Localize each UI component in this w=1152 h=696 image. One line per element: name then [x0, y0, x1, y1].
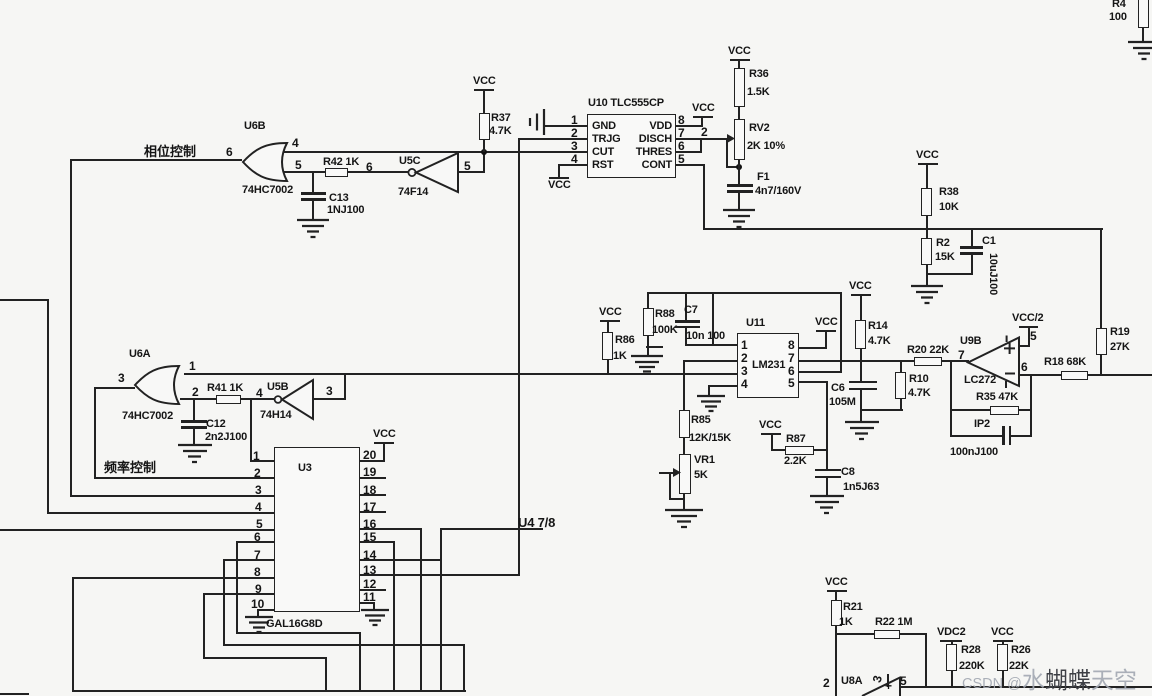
potentiometer RV2 body: [734, 119, 745, 160]
wire: vertical x95 U6A out to U3 pin2: [94, 387, 96, 478]
ground under VR1: [663, 509, 705, 531]
label: R41 1K: [207, 382, 243, 394]
wire: U11 pin2 to R85: [684, 360, 737, 362]
label: 10uJ100 rotated: [987, 249, 999, 299]
wire: pin9 wrap down and right: [203, 593, 205, 659]
label: 4.7K: [489, 125, 511, 137]
wire: U4 7/8 stub: [440, 528, 543, 530]
wire: pin8 wrap down along left: [72, 577, 74, 692]
wire: U6B pin4 input to node A and on to U10 CUT: [283, 151, 587, 153]
label: U10 right pin names: [649, 120, 672, 132]
wire: left vertical from phase net down to U3 pin3: [70, 159, 72, 497]
wire: net down to U3 pin1: [250, 398, 252, 462]
wire: R2/C1 to ground: [926, 273, 928, 287]
capacitor IP2 plates (vertical): [1002, 426, 1005, 445]
wire: U11 pin4 to ground: [709, 385, 737, 387]
IC U11 LM231 body: [737, 333, 799, 398]
wire: U10 pin1 GND lead: [544, 125, 587, 127]
op-amp U9B triangle: [965, 334, 1025, 394]
wire: U11 pin6 vertical from loop: [840, 292, 842, 373]
label: F1: [757, 171, 769, 183]
capacitor C6 top lead: [860, 360, 862, 382]
inverter U5B (74H14, pointing left): [271, 377, 321, 423]
wire: U3 pin9: [203, 593, 274, 595]
potentiometer VR1 body: [679, 454, 691, 494]
junction dot RV2 bottom: [736, 164, 742, 170]
label: phase control (Chinese): [144, 141, 196, 160]
wire: R14 bottom lead: [860, 348, 862, 362]
wire: R42 to U5C bubble: [348, 171, 409, 173]
wire: U11 pin8 to VCC: [799, 347, 827, 349]
capacitor C1 top lead: [971, 228, 973, 247]
label: pin 5 of U6B: [295, 158, 302, 172]
label: U10 pin numbers 1-4: [571, 113, 578, 127]
wire: long bottom bus: [72, 690, 466, 692]
wire: R22 left lead: [835, 633, 875, 635]
capacitor C6 plates: [849, 381, 877, 384]
resistor R2: [926, 228, 928, 238]
wire: vertical joining node A: [483, 151, 485, 173]
label: U11: [746, 317, 765, 329]
label: 74F14: [398, 186, 428, 198]
capacitor C12 plates: [181, 420, 207, 423]
label: IP2: [974, 418, 990, 430]
capacitor C1 bottom lead: [971, 254, 973, 275]
wire: long vertical TRJG to U3 pin13: [518, 138, 520, 576]
capacitor C8 plates: [815, 469, 841, 472]
IC U3 GAL16G8D body: [274, 447, 360, 612]
wire: U3 pin12 stub: [360, 589, 386, 591]
op-amp U8A (cropped at bottom edge): [823, 676, 830, 690]
resistor R22: [874, 630, 900, 639]
resistor R41: [216, 395, 241, 404]
power VDC2 above R28: [937, 626, 966, 638]
label: C12: [206, 418, 226, 430]
wire: U3 pin15 right and down: [360, 541, 395, 543]
label: 100nJ100: [950, 446, 998, 458]
wire: feedback vertical right: [1030, 374, 1032, 437]
capacitor F1 top lead: [738, 166, 740, 185]
wire: R88 bottom lead: [647, 335, 649, 357]
wire: phase-control net horizontal: [71, 159, 242, 161]
wire: R36 to RV2: [738, 106, 740, 120]
wire: R37 bottom lead to node A: [483, 139, 485, 152]
label: R37: [491, 112, 511, 124]
potentiometer RV2 wiper arrow: [726, 133, 738, 145]
resistor R86: [602, 332, 613, 360]
label: U10 left pin names: [592, 120, 616, 132]
wire: pin7 wrap down and right: [223, 559, 225, 646]
capacitor C8 bottom lead: [826, 477, 828, 496]
power VCC above R38: [916, 149, 939, 161]
resistor R14: [855, 320, 866, 349]
label: pin 2 of U6A: [192, 385, 199, 399]
resistor R20: [914, 357, 942, 366]
capacitor F1 bottom lead: [738, 192, 740, 211]
wire: U3 pin7: [223, 559, 274, 561]
inverter U5C (74F14, pointing left): [406, 150, 462, 196]
wire: U6B pin5 input to R42: [283, 171, 325, 173]
label: U3 left pin numbers: [253, 449, 260, 463]
wire: R4 to ground: [1142, 27, 1144, 43]
label: 1n5J63: [843, 481, 879, 493]
label: 1NJ100: [327, 204, 364, 216]
wire: U3 pin19 stub: [360, 477, 386, 479]
wire: U9B output to R18: [1019, 374, 1062, 376]
label: U3 right pin numbers: [363, 448, 376, 462]
wire: U3 pin5 bus to left edge: [0, 529, 274, 531]
label: pin 5 of U5C: [464, 159, 471, 173]
wire: R85 to VR1: [683, 437, 685, 455]
power VCC above R86: [599, 306, 622, 318]
label: R42 1K: [323, 156, 359, 168]
wire: feedback vertical left: [950, 360, 952, 437]
label: pin 6 of U5C: [366, 160, 373, 174]
label: GAL16G8D: [266, 618, 322, 630]
label: 74HC7002 under U6A: [122, 410, 173, 422]
label: C7: [684, 304, 698, 316]
wire: main bus y374 (U6A pin1 to U11 pin3): [184, 373, 737, 375]
wire: R2 bottom joining C1 bottom: [926, 264, 928, 275]
wire: right vertical from net y229 down to R19: [1100, 228, 1102, 329]
label: pin 4 of U5B: [256, 386, 263, 400]
wire: R22 right lead and down: [899, 633, 927, 635]
wire: U3 pin17 stub: [360, 511, 386, 513]
wire: U11 pin5 down: [799, 381, 828, 383]
resistor R4 (top edge, cropped): [1138, 0, 1149, 28]
wire: VR1 wiper wrap to bottom: [669, 472, 671, 500]
capacitor C12 lead: [193, 398, 195, 421]
label: frequency control (Chinese): [104, 457, 156, 476]
label: 2n2J100: [205, 431, 247, 443]
label: pin 3 of U6A: [118, 371, 125, 385]
label: pin 4 of U6B: [292, 136, 299, 150]
label: pin 7: [958, 348, 965, 362]
wire: U11 pin1 vertical from loop: [712, 292, 714, 346]
wire: R18 right to edge: [1088, 374, 1152, 376]
label: 74HC7002 under U6B: [242, 184, 293, 196]
label: U3: [298, 462, 312, 474]
capacitor C7 bottom lead to U11 pin1: [685, 327, 687, 346]
label: U10 TLC555CP: [588, 97, 664, 109]
power VCC above R37: [473, 75, 496, 87]
capacitor C1 plates: [960, 246, 983, 249]
wire: U10 pin2 TRJG lead: [519, 138, 587, 140]
label: C6: [831, 382, 845, 394]
capacitor C13 bottom lead: [312, 200, 314, 220]
resistor R85: [679, 410, 690, 438]
wire: U8A output net to right edge: [899, 686, 1152, 688]
node A junction dot: [481, 149, 487, 155]
ground under U3 pin11: [359, 609, 391, 628]
wire: U3 pin6: [236, 541, 274, 543]
power VCC/2 at U9B pin5: [1019, 345, 1030, 347]
wire: U10 pin7 DISCH to RV2 wiper: [676, 138, 728, 140]
resistor R26: [997, 644, 1008, 671]
resistor R36: [734, 68, 745, 107]
wire: U5B input up to bus: [313, 398, 346, 400]
ground under C8: [808, 495, 846, 517]
wire: left edge stub y300: [0, 299, 48, 301]
power VCC above R14: [849, 280, 872, 292]
capacitor C13 plates: [301, 192, 326, 195]
capacitor C12 bottom lead: [193, 428, 195, 445]
label: C13: [329, 192, 349, 204]
resistor R87: [771, 449, 786, 451]
gate U6B (74HC7002 NOR, pointing left): [238, 140, 298, 188]
label: U10 pin numbers 8-5: [678, 113, 685, 127]
ground under C6: [843, 421, 881, 443]
resistor R19: [1096, 328, 1107, 355]
wire: U10 pin6 THRES up to pin7 net: [676, 151, 702, 153]
wire: RV2 wiper down to bottom terminal: [726, 138, 728, 168]
label: LC272: [964, 374, 996, 386]
ground under R2: [909, 285, 945, 307]
chassis ground symbol left of U10 pin1 (rotated): [524, 107, 548, 137]
power VCC above R21: [825, 576, 848, 588]
label: pin 6: [1021, 360, 1028, 374]
ground under C12: [176, 444, 214, 466]
wire: vertical x48 to U3 pin4: [47, 299, 49, 513]
ground under U11 pin4: [695, 395, 727, 414]
capacitor C7 plates: [675, 320, 700, 323]
label: 105M: [829, 396, 856, 408]
label: C8: [841, 466, 855, 478]
resistor R38: [921, 188, 932, 216]
wire: U6A pin2 to R41: [180, 398, 216, 400]
ground under C13: [295, 219, 331, 241]
label: 4n7/160V: [755, 185, 801, 197]
resistor R35: [990, 406, 1019, 415]
label: pin 6 of U6B: [226, 145, 233, 159]
resistor R42: [325, 168, 348, 177]
wire: U3 pin13 to TRJG vertical: [360, 574, 520, 576]
ground under U3 pin10: [243, 616, 275, 635]
wire: U3 pin16 right and down: [360, 528, 422, 530]
wire: U5C input to vertical: [458, 171, 485, 173]
label: C1: [982, 235, 996, 247]
label: U5B: [267, 381, 288, 393]
label: U5C: [399, 155, 420, 167]
label: U6B: [244, 120, 265, 132]
label: LM231: [752, 359, 785, 371]
wire: U3 pin20 to VCC: [360, 460, 385, 462]
wire: RV2 bottom lead: [738, 159, 740, 168]
label: U6A: [129, 348, 150, 360]
wire: U3 pin8: [72, 577, 274, 579]
wire: top loop horizontal y293: [648, 292, 842, 294]
wire: R86 bottom to bus: [607, 359, 609, 375]
ground under R88: [629, 355, 665, 375]
label: U4 7/8: [518, 515, 555, 530]
wire: R19 bottom to output net: [1100, 354, 1102, 375]
wire: R20 to U9B apex: [942, 360, 969, 362]
wire: long horizontal net y229: [703, 228, 1103, 230]
label: net 2: [701, 125, 708, 139]
capacitor C13 lead: [312, 171, 314, 193]
gate U6A (74HC7002 NOR, pointing left): [130, 363, 190, 411]
capacitor C6 bottom lead: [860, 389, 862, 422]
resistor R28: [946, 644, 957, 671]
wire: U11 pin7 long net to op-amp: [799, 360, 953, 362]
power VCC above R26: [991, 626, 1014, 638]
wire: U10 pin8 to VCC: [676, 125, 703, 127]
potentiometer VR1 wiper arrow: [659, 472, 675, 474]
resistor R37: [479, 113, 490, 140]
wire: U3 pin18 stub: [360, 494, 386, 496]
label: 74H14: [260, 409, 291, 421]
wire: U3 pin10 stub to ground: [257, 609, 274, 611]
wire: R88 top lead: [647, 292, 649, 308]
watermark CSDN: [962, 661, 1137, 695]
wire: bottom-left corner stub: [0, 693, 29, 695]
capacitor C7 top lead: [685, 292, 687, 321]
capacitor F1 plates: [727, 184, 753, 187]
wire: U3 pin3 horizontal: [70, 495, 274, 497]
op-amp timer U10 body: [587, 114, 676, 178]
resistor R88: [643, 308, 654, 336]
wire: U6A output horizontal: [95, 387, 135, 389]
power VCC above R87: [759, 419, 782, 431]
wire: R21 down to U8A input: [835, 625, 837, 696]
wire: pin6 wrap down and right: [236, 541, 238, 634]
capacitor IP2 row: [950, 435, 1003, 437]
label: pin 3 of U5B: [326, 384, 333, 398]
wire: U3 pin14 right and down: [360, 559, 442, 561]
resistor R21: [831, 600, 842, 626]
wire: R38 bottom to net y229: [926, 215, 928, 230]
U8A pin3 label (rotated): [870, 674, 885, 684]
label: pin 5: [1030, 329, 1037, 343]
label: U9B: [960, 335, 981, 347]
wire: U3 pin4 horizontal: [47, 512, 274, 514]
wire: U10 pin4 RST lead: [559, 164, 587, 166]
tick bar on R88 lead: [646, 346, 663, 348]
power VCC below RST: [558, 164, 560, 178]
wire: C6/R10 bottom tie: [860, 409, 903, 411]
feedback resistor R35 row: [950, 409, 991, 411]
wire: U8A output vertical: [899, 677, 901, 696]
power VCC above R36: [728, 45, 751, 57]
wire: U10 pin5 CONT down to long net: [676, 164, 705, 166]
label: 10n 100: [686, 330, 725, 342]
resistor R18: [1061, 371, 1088, 380]
U8A triangle edge (partial): [858, 673, 906, 696]
label: pin 1 of U6A: [189, 359, 196, 373]
wire: U3 pin11 to ground: [360, 602, 375, 604]
ground under F1: [721, 209, 757, 231]
ground under R4: [1126, 41, 1152, 63]
wire: VR1 bottom to ground: [683, 493, 685, 510]
wire: U3 pin2 horizontal: [94, 477, 274, 479]
wire: R41 to U5B bubble: [240, 398, 274, 400]
resistor R10: [900, 360, 902, 373]
label: U11 pin numbers: [741, 338, 748, 352]
